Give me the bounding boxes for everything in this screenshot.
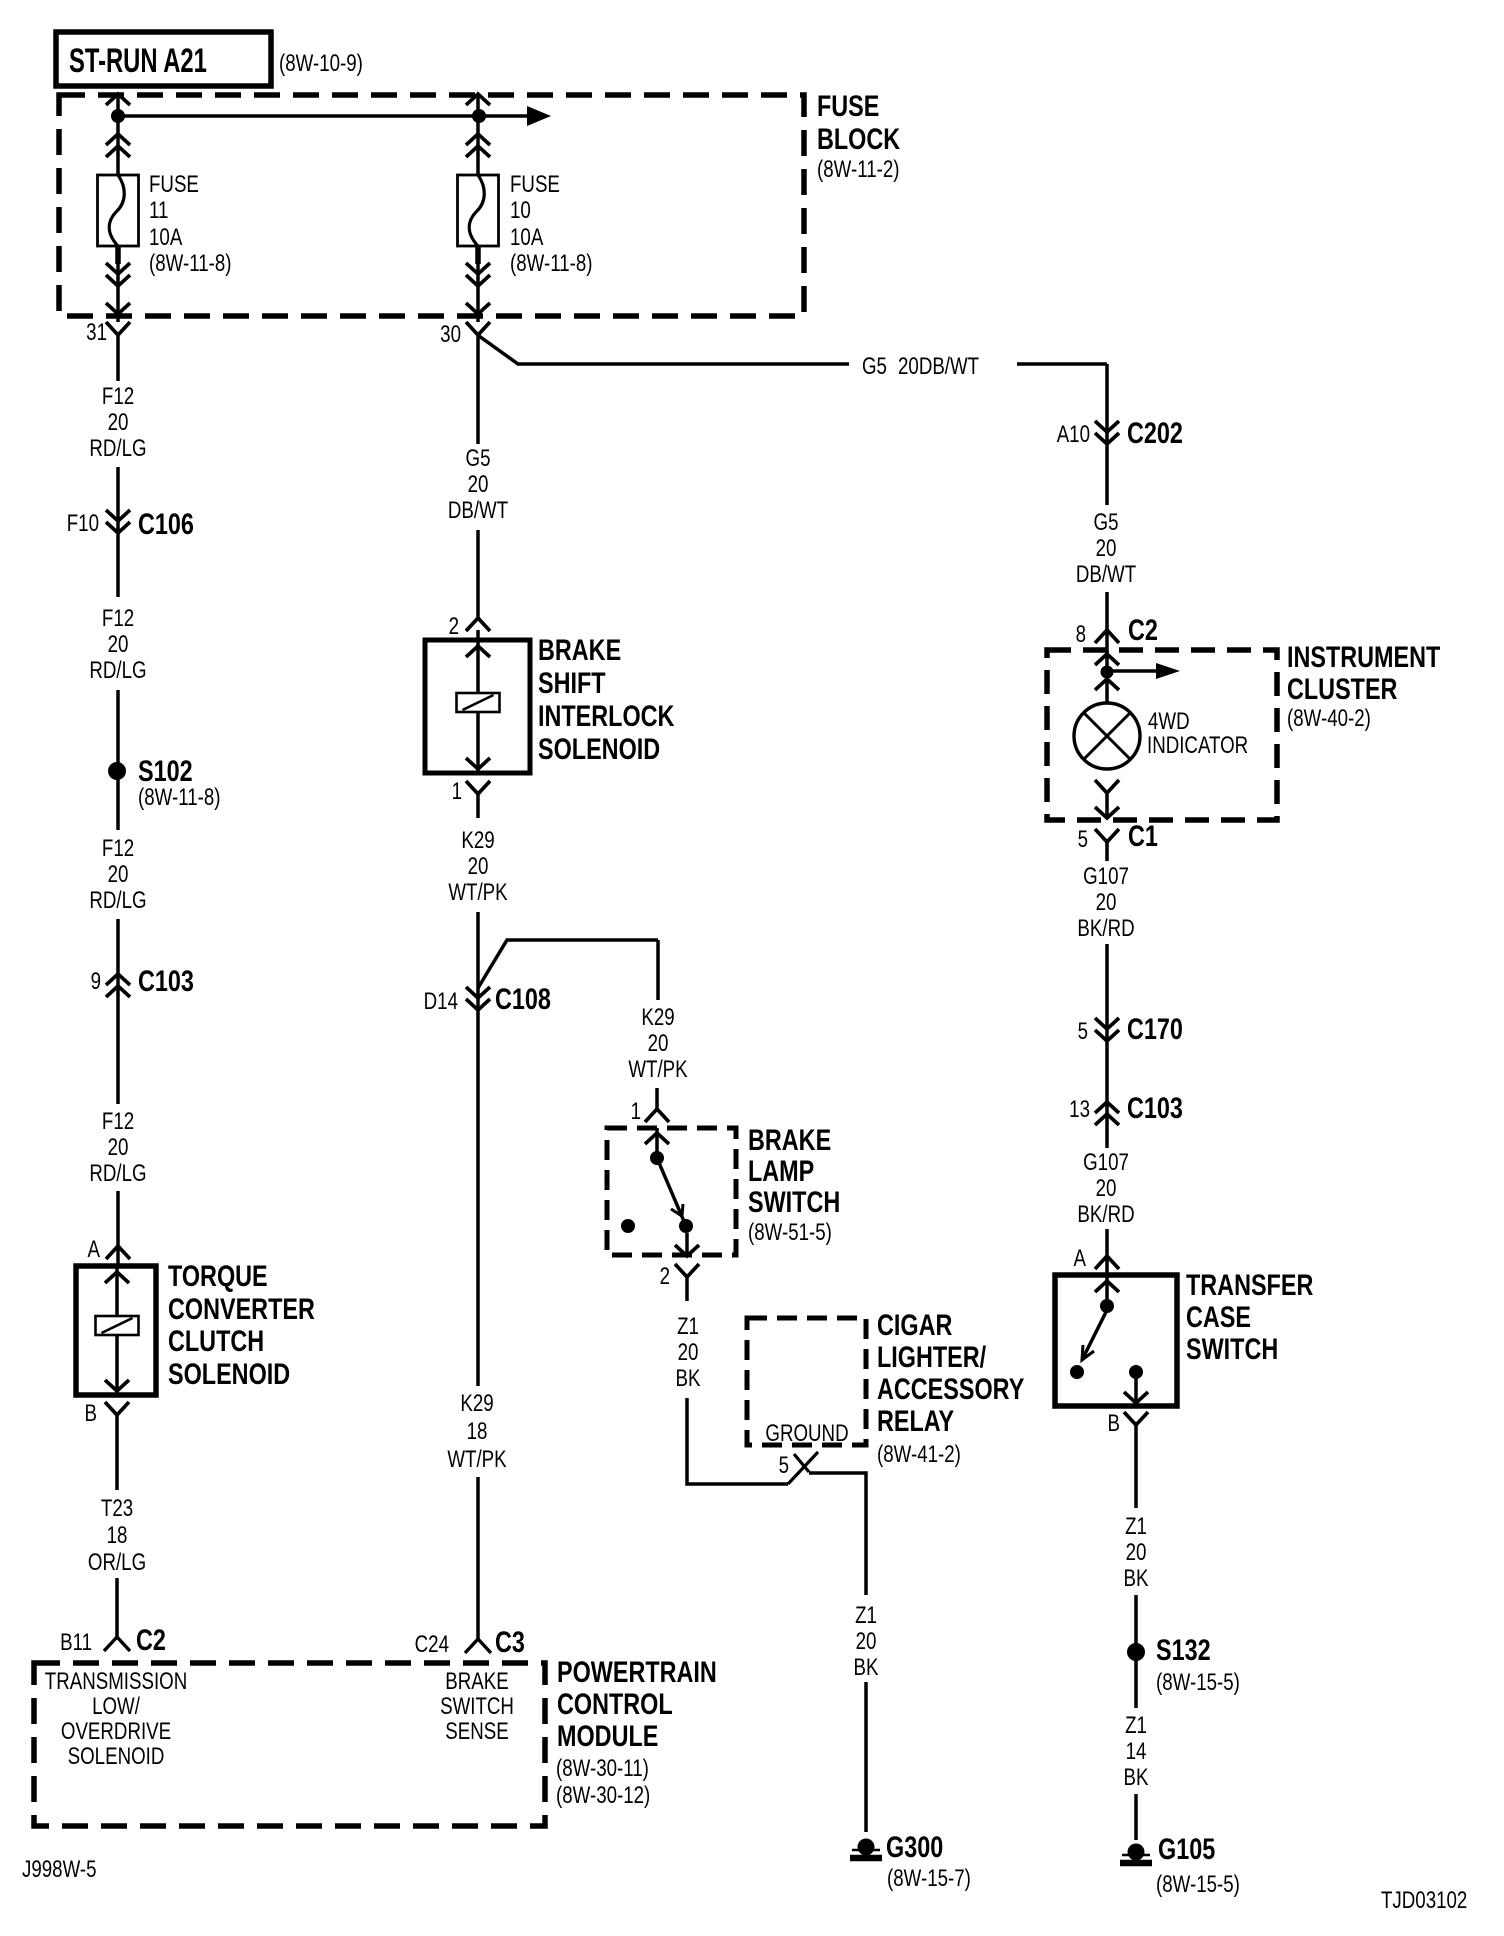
- svg-text:C2: C2: [136, 1623, 166, 1656]
- svg-text:GROUND: GROUND: [765, 1420, 848, 1447]
- svg-text:TJD03102: TJD03102: [1381, 1887, 1467, 1914]
- transfer case switch pin A: [1105, 1229, 1109, 1275]
- svg-text:ACCESSORY: ACCESSORY: [877, 1372, 1024, 1405]
- svg-text:(8W-51-5): (8W-51-5): [748, 1219, 832, 1246]
- svg-text:C103: C103: [138, 964, 194, 997]
- wire K29 20 WT/PK: [476, 794, 480, 818]
- wire to C106: [116, 467, 120, 597]
- ground G300: [852, 1849, 880, 1852]
- svg-text:RD/LG: RD/LG: [89, 657, 146, 684]
- svg-text:F12: F12: [102, 835, 134, 862]
- wire Z1 20 BK right: [1134, 1425, 1138, 1508]
- svg-text:20: 20: [108, 861, 129, 888]
- svg-text:F10: F10: [67, 510, 99, 537]
- svg-text:CIGAR: CIGAR: [877, 1308, 952, 1341]
- svg-text:FUSE: FUSE: [510, 171, 560, 198]
- svg-text:Z1: Z1: [855, 1602, 877, 1629]
- wire to PCM C2 pin B11: [115, 1578, 119, 1637]
- svg-text:G5: G5: [862, 353, 887, 380]
- svg-text:20: 20: [108, 631, 129, 658]
- svg-text:(8W-15-7): (8W-15-7): [887, 1865, 971, 1892]
- svg-text:Z1: Z1: [677, 1313, 699, 1340]
- svg-text:OVERDRIVE: OVERDRIVE: [61, 1718, 171, 1745]
- svg-text:10: 10: [510, 197, 531, 224]
- svg-text:SENSE: SENSE: [445, 1718, 508, 1745]
- svg-text:(8W-40-2): (8W-40-2): [1287, 705, 1371, 732]
- svg-text:ST-RUN A21: ST-RUN A21: [69, 42, 207, 80]
- svg-text:SOLENOID: SOLENOID: [168, 1357, 290, 1390]
- svg-text:RD/LG: RD/LG: [89, 435, 146, 462]
- svg-text:BK/RD: BK/RD: [1077, 915, 1134, 942]
- brake lamp switch dashed box: [607, 1128, 736, 1255]
- svg-text:SWITCH: SWITCH: [748, 1185, 840, 1218]
- svg-text:13: 13: [1069, 1096, 1090, 1123]
- switch blade with arrow: [657, 1158, 686, 1226]
- ground G105: [1122, 1854, 1150, 1857]
- svg-text:BLOCK: BLOCK: [817, 122, 901, 155]
- in-line connector C106 pin F10: [106, 510, 130, 521]
- svg-text:LIGHTER/: LIGHTER/: [877, 1340, 987, 1373]
- svg-text:K29: K29: [460, 1390, 493, 1417]
- svg-text:BK: BK: [854, 1654, 880, 1681]
- wire to relay ground splice: [687, 1398, 788, 1484]
- svg-text:2: 2: [449, 613, 459, 640]
- svg-text:BK: BK: [1124, 1764, 1150, 1791]
- svg-text:5: 5: [1078, 1018, 1088, 1045]
- svg-text:CONVERTER: CONVERTER: [168, 1292, 315, 1325]
- svg-text:S102: S102: [138, 754, 193, 787]
- svg-text:31: 31: [86, 319, 107, 346]
- svg-text:A: A: [88, 1236, 101, 1263]
- svg-text:(8W-41-2): (8W-41-2): [877, 1441, 961, 1468]
- svg-text:CASE: CASE: [1186, 1300, 1251, 1333]
- ST-RUN A21 feed box: [56, 32, 271, 86]
- cluster junction dot: [1101, 666, 1114, 679]
- svg-text:F12: F12: [102, 383, 134, 410]
- svg-text:(8W-11-2): (8W-11-2): [817, 156, 900, 183]
- in-line connector C202 pin A10: [1095, 421, 1119, 432]
- in-line connector C103 pin 9: [106, 974, 130, 985]
- svg-text:BRAKE: BRAKE: [445, 1668, 508, 1695]
- svg-text:(8W-15-5): (8W-15-5): [1156, 1669, 1240, 1696]
- svg-text:(8W-30-11): (8W-30-11): [556, 1755, 649, 1782]
- svg-text:FUSE: FUSE: [817, 89, 879, 122]
- wire F12 20 RD/LG segment 1: [116, 335, 120, 381]
- svg-text:F12: F12: [102, 605, 134, 632]
- svg-text:SHIFT: SHIFT: [538, 666, 606, 699]
- svg-text:Z1: Z1: [1125, 1513, 1147, 1540]
- svg-text:C103: C103: [1127, 1091, 1183, 1124]
- svg-text:8: 8: [1076, 621, 1086, 648]
- svg-text:POWERTRAIN: POWERTRAIN: [557, 1655, 717, 1688]
- wire fuse 11 to connector 31: [116, 246, 120, 322]
- svg-text:J998W-5: J998W-5: [22, 1856, 97, 1883]
- in-line connector C170 pin 5: [1095, 1018, 1119, 1029]
- svg-text:A: A: [1074, 1245, 1087, 1272]
- svg-text:A10: A10: [1057, 421, 1090, 448]
- svg-text:LOW/: LOW/: [92, 1693, 140, 1720]
- cluster branch arrow: [1107, 669, 1156, 673]
- svg-text:C170: C170: [1127, 1012, 1183, 1045]
- svg-text:B11: B11: [60, 1629, 92, 1656]
- svg-text:B: B: [1108, 1410, 1120, 1437]
- svg-text:14: 14: [1126, 1738, 1147, 1765]
- svg-text:C24: C24: [415, 1631, 449, 1658]
- svg-text:1: 1: [452, 778, 462, 805]
- wire Z1 20 BK: [685, 1277, 689, 1301]
- svg-text:INTERLOCK: INTERLOCK: [538, 699, 675, 732]
- svg-text:11: 11: [149, 197, 168, 224]
- svg-text:K29: K29: [461, 827, 494, 854]
- svg-text:20: 20: [468, 853, 489, 880]
- svg-text:1: 1: [631, 1098, 641, 1125]
- svg-text:5: 5: [1078, 826, 1088, 853]
- svg-text:CLUTCH: CLUTCH: [168, 1324, 264, 1357]
- svg-text:INDICATOR: INDICATOR: [1147, 732, 1248, 759]
- wire T23 18 OR/LG: [115, 1415, 119, 1490]
- wire to brake shift interlock solenoid pin 2: [476, 530, 480, 618]
- junction dot left: [111, 109, 125, 123]
- svg-text:WT/PK: WT/PK: [447, 1446, 507, 1473]
- svg-text:10A: 10A: [510, 224, 544, 251]
- svg-text:(8W-11-8): (8W-11-8): [510, 250, 593, 277]
- svg-text:B: B: [85, 1400, 97, 1427]
- svg-text:(8W-11-8): (8W-11-8): [138, 784, 221, 811]
- svg-text:20: 20: [1126, 1539, 1147, 1566]
- svg-text:BRAKE: BRAKE: [748, 1123, 831, 1156]
- svg-text:CLUSTER: CLUSTER: [1287, 672, 1397, 705]
- svg-text:(8W-10-9): (8W-10-9): [279, 50, 363, 77]
- wire bus to fuse 10: [476, 93, 480, 176]
- splice S102: [108, 762, 126, 780]
- junction dot right: [472, 109, 486, 123]
- svg-text:LAMP: LAMP: [748, 1154, 814, 1187]
- svg-text:TRANSMISSION: TRANSMISSION: [45, 1668, 187, 1695]
- svg-text:Z1: Z1: [1125, 1712, 1147, 1739]
- svg-text:G107: G107: [1083, 863, 1129, 890]
- in-line connector C108 pin D14: [466, 987, 490, 998]
- svg-text:20: 20: [856, 1628, 877, 1655]
- svg-text:RD/LG: RD/LG: [89, 1160, 146, 1187]
- svg-text:20DB/WT: 20DB/WT: [898, 353, 979, 380]
- svg-text:G107: G107: [1083, 1149, 1129, 1176]
- torque converter clutch solenoid U1: [76, 1266, 156, 1395]
- fuse 10: [458, 175, 499, 246]
- svg-text:FUSE: FUSE: [149, 171, 199, 198]
- switch pivot contact: [650, 1151, 664, 1165]
- svg-text:RD/LG: RD/LG: [89, 887, 146, 914]
- instrument cluster dashed box: [1047, 650, 1277, 820]
- wire to torque converter clutch solenoid pin A: [116, 1191, 120, 1266]
- svg-text:C3: C3: [495, 1625, 525, 1658]
- svg-text:C106: C106: [138, 507, 194, 540]
- svg-text:2: 2: [660, 1263, 670, 1290]
- svg-text:(8W-11-8): (8W-11-8): [149, 250, 232, 277]
- switch contact left: [621, 1219, 635, 1233]
- svg-text:BK: BK: [676, 1365, 702, 1392]
- transfer case switch box: [1055, 1275, 1177, 1406]
- svg-text:C202: C202: [1127, 416, 1183, 449]
- bus wire with arrow inside fuse block: [118, 114, 527, 118]
- svg-text:SWITCH: SWITCH: [440, 1693, 514, 1720]
- in-line connector C103 pin 13: [1095, 1102, 1119, 1113]
- switch contact right: [679, 1219, 693, 1233]
- wire fuse 10 to connector 30: [476, 246, 480, 322]
- svg-text:BK: BK: [1124, 1565, 1150, 1592]
- svg-text:DB/WT: DB/WT: [1076, 561, 1136, 588]
- svg-text:(8W-30-12): (8W-30-12): [556, 1782, 650, 1809]
- svg-text:SWITCH: SWITCH: [1186, 1332, 1278, 1365]
- svg-text:18: 18: [467, 1418, 488, 1445]
- switch blade with arrow: [1082, 1312, 1106, 1360]
- wire to C103: [116, 919, 120, 1104]
- switch contact right: [1129, 1365, 1143, 1379]
- 4WD indicator lamp: [1074, 703, 1140, 769]
- svg-text:20: 20: [1096, 535, 1117, 562]
- wire K29 20 WT/PK to brake lamp switch: [656, 940, 660, 1000]
- svg-text:G105: G105: [1158, 1832, 1215, 1865]
- switch contact lower left: [1070, 1365, 1084, 1379]
- svg-text:SOLENOID: SOLENOID: [538, 732, 660, 765]
- svg-text:WT/PK: WT/PK: [448, 879, 508, 906]
- svg-text:F12: F12: [102, 1108, 134, 1135]
- svg-text:20: 20: [1096, 889, 1117, 916]
- svg-text:G5: G5: [1094, 509, 1119, 536]
- fuse 11: [98, 175, 139, 246]
- svg-text:SOLENOID: SOLENOID: [68, 1743, 165, 1770]
- svg-text:18: 18: [107, 1522, 128, 1549]
- fuse block dashed box: [59, 95, 804, 316]
- svg-text:T23: T23: [101, 1495, 133, 1522]
- svg-text:20: 20: [108, 409, 129, 436]
- svg-text:30: 30: [440, 321, 461, 348]
- svg-text:20: 20: [108, 1134, 129, 1161]
- wire to splice S102: [116, 690, 120, 830]
- svg-text:DB/WT: DB/WT: [448, 497, 508, 524]
- svg-text:RELAY: RELAY: [877, 1404, 954, 1437]
- cigar lighter/accessory relay dashed box: [747, 1318, 866, 1445]
- splice S132: [1127, 1643, 1145, 1661]
- svg-text:D14: D14: [424, 988, 458, 1015]
- powertrain control module dashed box: [34, 1663, 545, 1826]
- svg-text:WT/PK: WT/PK: [628, 1056, 688, 1083]
- svg-text:BK/RD: BK/RD: [1077, 1201, 1134, 1228]
- branch wire to G5 20DB/WT tap: [479, 336, 849, 364]
- svg-text:10A: 10A: [149, 224, 183, 251]
- wire G5 to instrument cluster: [1105, 364, 1109, 505]
- wire to C108 and PCM: [476, 912, 480, 1386]
- svg-text:C2: C2: [1128, 613, 1158, 646]
- wire G5 20 DB/WT down: [476, 335, 480, 444]
- svg-text:9: 9: [91, 968, 101, 995]
- svg-text:C1: C1: [1128, 819, 1158, 852]
- svg-text:5: 5: [779, 1452, 789, 1479]
- svg-text:S132: S132: [1156, 1633, 1211, 1666]
- svg-text:G300: G300: [886, 1830, 943, 1863]
- svg-text:(8W-15-5): (8W-15-5): [1156, 1871, 1240, 1898]
- svg-text:4WD: 4WD: [1148, 708, 1190, 735]
- svg-text:20: 20: [1096, 1175, 1117, 1202]
- svg-text:CONTROL: CONTROL: [557, 1687, 673, 1720]
- cluster exit pin: [1095, 780, 1119, 793]
- svg-text:C108: C108: [495, 982, 551, 1015]
- svg-text:INSTRUMENT: INSTRUMENT: [1287, 640, 1441, 673]
- svg-text:20: 20: [648, 1030, 669, 1057]
- svg-text:20: 20: [468, 471, 489, 498]
- branch wire to brake lamp switch: [478, 940, 658, 988]
- wire G107 20 BK/RD: [1105, 842, 1109, 861]
- svg-text:BRAKE: BRAKE: [538, 633, 621, 666]
- svg-text:20: 20: [678, 1339, 699, 1366]
- wire ST-RUN A21 to fuse 11: [116, 93, 120, 176]
- svg-text:TORQUE: TORQUE: [168, 1259, 268, 1292]
- svg-text:OR/LG: OR/LG: [88, 1549, 146, 1576]
- svg-text:TRANSFER: TRANSFER: [1186, 1268, 1313, 1301]
- svg-text:MODULE: MODULE: [557, 1719, 658, 1752]
- brake shift interlock solenoid: [425, 640, 530, 773]
- svg-text:G5: G5: [466, 445, 491, 472]
- switch pivot contact: [1100, 1299, 1114, 1313]
- svg-text:K29: K29: [641, 1004, 674, 1031]
